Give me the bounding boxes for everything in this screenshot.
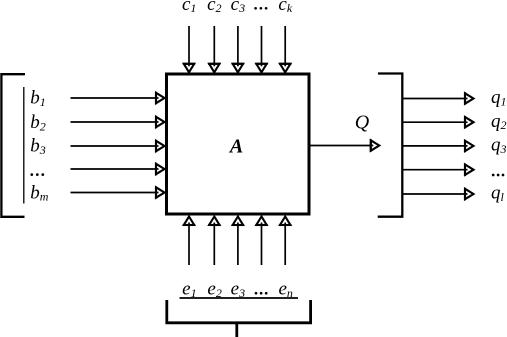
control arrow c2 — [208, 26, 220, 72]
block A box — [167, 74, 310, 214]
svg-text:e3: e3 — [231, 279, 245, 300]
input arrow b3 — [71, 140, 165, 152]
control arrow c1 — [183, 26, 195, 72]
svg-text:c3: c3 — [231, 0, 245, 15]
svg-text:Q: Q — [355, 112, 370, 134]
control arrow c3 — [232, 26, 244, 72]
label c1 — [182, 0, 196, 15]
label e2 — [207, 279, 221, 300]
label en — [278, 279, 292, 300]
label dots right — [492, 174, 505, 177]
input arrow b2 — [71, 116, 165, 128]
label Q — [355, 112, 370, 134]
svg-text:c1: c1 — [182, 0, 196, 15]
svg-text:b2: b2 — [30, 112, 46, 133]
svg-text:b3: b3 — [30, 136, 46, 157]
bottom bracket — [165, 300, 312, 323]
enable arrow e1 — [183, 217, 195, 266]
output arrow q1 — [403, 92, 473, 104]
svg-text:q1: q1 — [491, 87, 507, 108]
block A label — [228, 135, 243, 157]
right output bracket — [378, 74, 403, 217]
input arrow b5 — [71, 186, 165, 198]
svg-text:ql: ql — [491, 183, 505, 204]
label b1 — [30, 88, 46, 109]
label ck — [278, 0, 292, 15]
svg-text:e1: e1 — [182, 279, 196, 300]
label c3 — [231, 0, 245, 15]
label e3 — [231, 279, 245, 300]
output arrow q3 — [403, 140, 473, 152]
svg-text:b1: b1 — [30, 88, 46, 109]
control arrow c5 — [279, 26, 291, 72]
svg-text:q3: q3 — [491, 135, 507, 156]
svg-text:c2: c2 — [207, 0, 221, 15]
label e1 — [182, 279, 196, 300]
input arrow b4 — [71, 163, 165, 175]
input arrow b1 — [71, 92, 165, 104]
label c2 — [207, 0, 221, 15]
svg-text:bm: bm — [30, 182, 49, 203]
svg-text:en: en — [278, 279, 292, 300]
svg-text:ck: ck — [278, 0, 292, 15]
svg-text:e2: e2 — [207, 279, 221, 300]
bottom bracket stem — [235, 323, 238, 337]
svg-text:A: A — [228, 135, 243, 157]
label dots top — [254, 7, 267, 10]
control arrow c4 — [255, 26, 267, 72]
svg-text:q2: q2 — [491, 111, 507, 132]
label q1 — [491, 87, 507, 108]
output arrow q5 — [403, 188, 473, 200]
left vertical line — [23, 87, 25, 204]
label q2 — [491, 111, 507, 132]
label dots left — [30, 173, 44, 176]
enable arrow e3 — [232, 217, 244, 266]
output arrow q2 — [403, 116, 473, 128]
enable arrow e5 — [279, 217, 291, 266]
label bm — [30, 182, 49, 203]
label b3 — [30, 136, 46, 157]
left input bracket — [1, 74, 25, 217]
label dots bottom — [255, 292, 268, 295]
enable arrow e2 — [208, 217, 220, 266]
enable arrow e4 — [255, 217, 267, 266]
label b2 — [30, 112, 46, 133]
e labels underline — [180, 297, 299, 299]
output arrow q4 — [403, 164, 473, 176]
label q3 — [491, 135, 507, 156]
output arrow Q — [311, 139, 380, 151]
label ql — [491, 183, 505, 204]
